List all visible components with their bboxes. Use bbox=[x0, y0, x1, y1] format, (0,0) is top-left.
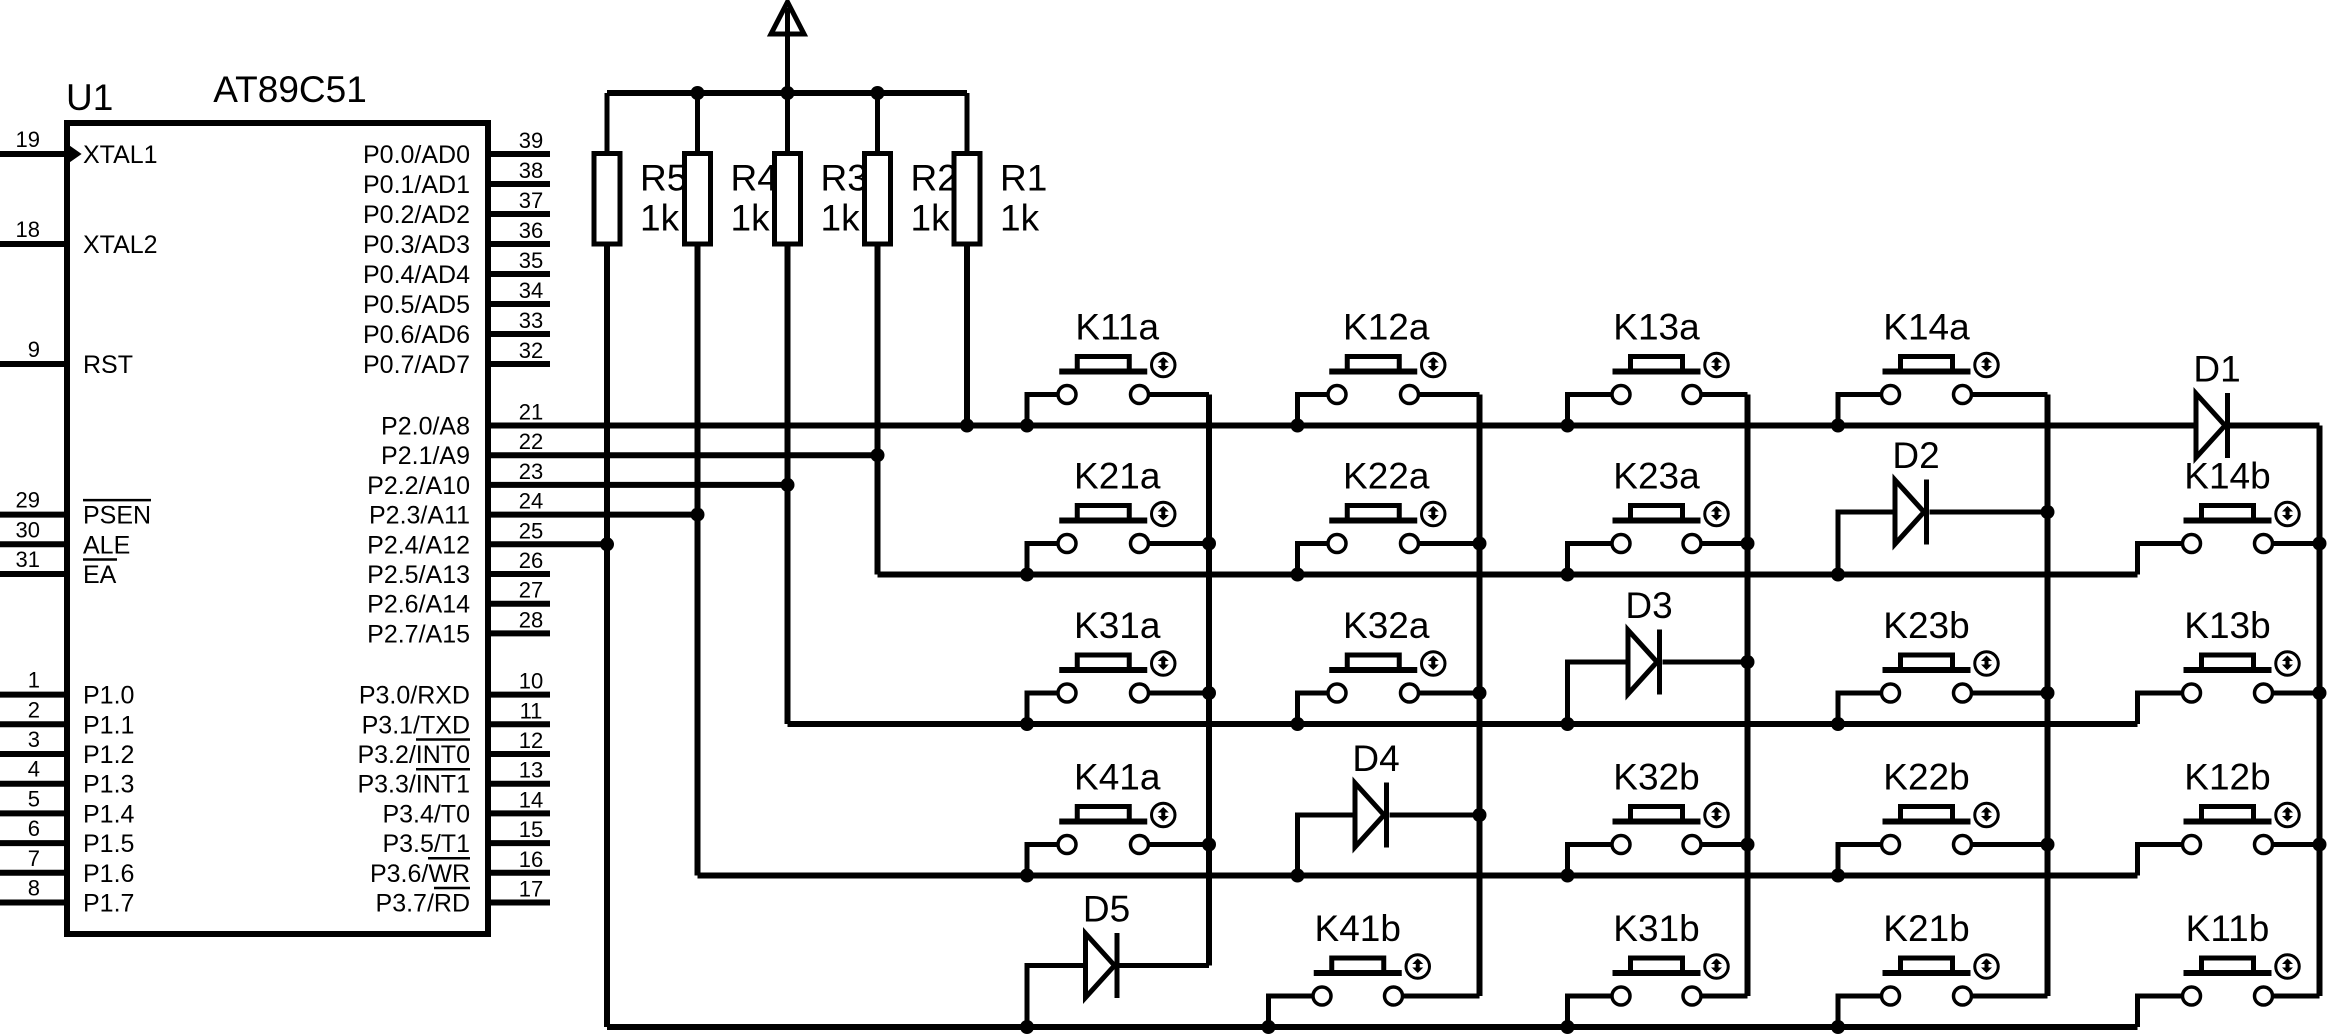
svg-text:P3.5/T1: P3.5/T1 bbox=[382, 830, 470, 858]
junction P2.2 line and R3 column bbox=[781, 478, 795, 492]
pin 30 (ALE) wire bbox=[0, 541, 67, 547]
switch K22b right contact bbox=[1954, 836, 1972, 854]
switch K22a base plate bbox=[1329, 518, 1417, 524]
svg-text:P2.4/A12: P2.4/A12 bbox=[367, 531, 470, 559]
diode D2 cathode bar bbox=[1924, 480, 1929, 545]
row 5 bus wire bbox=[607, 1024, 2138, 1030]
svg-text:D4: D4 bbox=[1352, 738, 1399, 779]
svg-text:K32b: K32b bbox=[1613, 757, 1699, 798]
svg-text:P2.1/A9: P2.1/A9 bbox=[381, 442, 470, 470]
junction right column / switch K14b bbox=[2313, 537, 2327, 551]
switch K23b left wire from row bus bbox=[1838, 693, 1880, 724]
switch K22b right wire to column bbox=[1973, 842, 2048, 847]
key column 4 vertical wire bbox=[2045, 395, 2051, 997]
svg-text:33: 33 bbox=[519, 308, 543, 333]
svg-text:K12b: K12b bbox=[2184, 757, 2270, 798]
switch K31a base plate bbox=[1059, 667, 1147, 673]
junction right column / switch K12b bbox=[2313, 838, 2327, 852]
svg-text:EA: EA bbox=[83, 561, 117, 589]
resistor R2 body bbox=[865, 154, 891, 245]
svg-text:P1.0: P1.0 bbox=[83, 682, 134, 710]
overline for EA bbox=[83, 558, 117, 561]
switch K32b actuator icon bbox=[1705, 803, 1729, 827]
pin 13 (P3.3/INT1) wire bbox=[488, 781, 550, 787]
svg-text:K23b: K23b bbox=[1883, 605, 1969, 646]
svg-text:P2.0/A8: P2.0/A8 bbox=[381, 413, 470, 441]
switch K22a button cap bbox=[1347, 506, 1399, 521]
switch K14a button cap bbox=[1901, 357, 1953, 372]
power supply arrow symbol bbox=[771, 2, 804, 34]
junction column vertical / switch K41a bbox=[1202, 838, 1216, 852]
svg-text:1k: 1k bbox=[640, 198, 680, 239]
switch K11b base plate bbox=[2184, 970, 2272, 976]
svg-text:P3.7/RD: P3.7/RD bbox=[376, 890, 470, 918]
pin 8 (P1.7) wire bbox=[0, 900, 67, 906]
junction row bus / switch K21a bbox=[1020, 568, 1034, 582]
svg-text:12: 12 bbox=[519, 728, 543, 753]
switch K32b button cap bbox=[1631, 807, 1683, 822]
switch K21a left contact bbox=[1058, 535, 1076, 553]
svg-text:P2.7/A15: P2.7/A15 bbox=[367, 620, 470, 648]
svg-text:P3.3/INT1: P3.3/INT1 bbox=[357, 771, 470, 799]
pin 1 (P1.0) wire bbox=[0, 692, 67, 698]
svg-text:P3.4/T0: P3.4/T0 bbox=[382, 800, 470, 828]
switch K21a right contact bbox=[1131, 535, 1149, 553]
diode D3 triangle bbox=[1628, 630, 1657, 694]
switch K23b right contact bbox=[1954, 684, 1972, 702]
switch K32a right contact bbox=[1401, 684, 1419, 702]
switch K21b right contact bbox=[1954, 987, 1972, 1005]
svg-text:R5: R5 bbox=[640, 158, 687, 199]
svg-text:R1: R1 bbox=[1000, 158, 1047, 199]
svg-text:3: 3 bbox=[28, 727, 40, 752]
svg-text:17: 17 bbox=[519, 877, 543, 902]
switch K41a right contact bbox=[1131, 836, 1149, 854]
pin 17 (P3.7/RD) wire bbox=[488, 900, 550, 906]
switch K12b button cap bbox=[2202, 807, 2254, 822]
switch K23a actuator icon bbox=[1705, 502, 1729, 526]
row 4 bus wire bbox=[698, 873, 2138, 879]
svg-text:U1: U1 bbox=[66, 77, 113, 118]
switch K14a left contact bbox=[1882, 386, 1900, 404]
switch K14a base plate bbox=[1883, 369, 1971, 375]
switch K14b left wire from row bus end bbox=[2138, 544, 2182, 575]
svg-text:RST: RST bbox=[83, 351, 133, 379]
svg-text:38: 38 bbox=[519, 158, 543, 183]
junction row bus / switch K21b bbox=[1831, 1020, 1845, 1034]
resistor R4 body bbox=[685, 154, 711, 245]
diode D3 cathode wire to column 3 bbox=[1663, 660, 1748, 665]
svg-text:31: 31 bbox=[16, 547, 40, 572]
switch K21b left wire from row bus bbox=[1838, 996, 1880, 1027]
svg-text:P0.3/AD3: P0.3/AD3 bbox=[363, 231, 470, 259]
junction column vertical / switch K23a bbox=[1741, 537, 1755, 551]
svg-text:K31a: K31a bbox=[1074, 605, 1161, 646]
junction row 5 bus / D5 anode bbox=[1020, 1020, 1034, 1034]
svg-text:P0.4/AD4: P0.4/AD4 bbox=[363, 261, 470, 289]
switch K41b base plate bbox=[1314, 970, 1402, 976]
switch K13b actuator icon bbox=[2276, 652, 2300, 676]
pin 3 (P1.2) wire bbox=[0, 751, 67, 757]
pin 11 (P3.1/TXD) wire bbox=[488, 721, 550, 727]
svg-text:P1.1: P1.1 bbox=[83, 711, 134, 739]
svg-text:14: 14 bbox=[519, 787, 543, 812]
junction on power rail at R2 bbox=[871, 86, 885, 100]
switch K23b base plate bbox=[1883, 667, 1971, 673]
switch K22b base plate bbox=[1883, 819, 1971, 825]
switch K31b actuator icon bbox=[1705, 955, 1729, 979]
switch K12b actuator icon bbox=[2276, 803, 2300, 827]
switch K21b button cap bbox=[1901, 958, 1953, 973]
switch K31a actuator icon bbox=[1152, 652, 1176, 676]
switch K13b button cap bbox=[2202, 655, 2254, 670]
switch K13b right wire to right column bbox=[2274, 691, 2320, 696]
switch K41b right wire to column bbox=[1404, 994, 1480, 999]
switch K32b right contact bbox=[1683, 836, 1701, 854]
svg-text:D5: D5 bbox=[1083, 889, 1130, 930]
switch K23b actuator icon bbox=[1975, 652, 1999, 676]
svg-text:11: 11 bbox=[520, 698, 543, 723]
junction row bus / switch K41b bbox=[1262, 1020, 1276, 1034]
svg-text:P2.5/A13: P2.5/A13 bbox=[367, 561, 470, 589]
switch K11a button cap bbox=[1077, 357, 1129, 372]
switch K41b left wire from row bus bbox=[1269, 996, 1312, 1027]
row 2 bus wire bbox=[878, 572, 2138, 578]
switch K31b base plate bbox=[1613, 970, 1701, 976]
switch K11b left contact bbox=[2183, 987, 2201, 1005]
switch K23a button cap bbox=[1631, 506, 1683, 521]
svg-text:AT89C51: AT89C51 bbox=[213, 69, 367, 110]
switch K11a actuator icon bbox=[1152, 353, 1176, 377]
XTAL1 input arrow bbox=[69, 147, 79, 161]
switch K13a base plate bbox=[1613, 369, 1701, 375]
switch K22a actuator icon bbox=[1422, 502, 1446, 526]
svg-text:XTAL2: XTAL2 bbox=[83, 231, 158, 259]
switch K22a right wire to column bbox=[1420, 541, 1480, 546]
pin 34 (P0.5/AD5) wire bbox=[488, 301, 550, 307]
switch K23b right wire to column bbox=[1973, 691, 2048, 696]
svg-text:D1: D1 bbox=[2193, 349, 2240, 390]
svg-text:1k: 1k bbox=[821, 198, 861, 239]
pin 19 (XTAL1) wire bbox=[0, 151, 67, 157]
pin 14 (P3.4/T0) wire bbox=[488, 810, 550, 816]
svg-text:7: 7 bbox=[28, 846, 40, 871]
svg-text:30: 30 bbox=[16, 517, 40, 542]
switch K12b right wire to right column bbox=[2274, 842, 2320, 847]
switch K14b actuator icon bbox=[2276, 502, 2300, 526]
svg-text:P2.2/A10: P2.2/A10 bbox=[367, 472, 470, 500]
switch K41a left contact bbox=[1058, 836, 1076, 854]
junction P2.4 line and R5 column bbox=[600, 537, 614, 551]
switch K21b left contact bbox=[1882, 987, 1900, 1005]
svg-text:D3: D3 bbox=[1625, 585, 1672, 626]
svg-text:K13b: K13b bbox=[2184, 605, 2270, 646]
pin 9 (RST) wire bbox=[0, 361, 67, 367]
switch K12a right wire to column bbox=[1420, 392, 1480, 397]
switch K22b actuator icon bbox=[1975, 803, 1999, 827]
svg-text:P0.1/AD1: P0.1/AD1 bbox=[363, 171, 470, 199]
pin 10 (P3.0/RXD) wire bbox=[488, 692, 550, 698]
resistor R1 body bbox=[954, 154, 980, 245]
svg-text:2: 2 bbox=[28, 697, 40, 722]
wire below resistor R5 bbox=[604, 244, 610, 1027]
wire from power rail to resistor R3 bbox=[785, 93, 790, 154]
svg-text:K21a: K21a bbox=[1074, 456, 1161, 497]
svg-text:P1.2: P1.2 bbox=[83, 741, 134, 769]
svg-text:16: 16 bbox=[519, 847, 543, 872]
junction row bus / switch K32a bbox=[1291, 717, 1305, 731]
row 3 bus wire bbox=[788, 721, 2138, 727]
switch K31b right wire to column bbox=[1703, 994, 1748, 999]
switch K41b actuator icon bbox=[1406, 955, 1430, 979]
switch K32a right wire to column bbox=[1420, 691, 1480, 696]
switch K32a button cap bbox=[1347, 655, 1399, 670]
diode D3 anode wire from row 3 bus bbox=[1568, 662, 1629, 724]
switch K11a right wire to column bbox=[1150, 392, 1209, 397]
svg-text:K11b: K11b bbox=[2186, 908, 2270, 949]
pin 23 (P2.2/A10) wire bbox=[488, 482, 788, 488]
switch K14a right contact bbox=[1954, 386, 1972, 404]
pin 37 (P0.2/AD2) wire bbox=[488, 211, 550, 217]
pin 2 (P1.1) wire bbox=[0, 721, 67, 727]
switch K41a actuator icon bbox=[1152, 803, 1176, 827]
switch K41a left wire from row bus bbox=[1027, 845, 1057, 876]
svg-text:4: 4 bbox=[28, 757, 40, 782]
switch K14b left contact bbox=[2183, 535, 2201, 553]
svg-text:19: 19 bbox=[16, 127, 40, 152]
switch K12a left wire from row bus bbox=[1298, 395, 1327, 426]
svg-text:35: 35 bbox=[519, 248, 543, 273]
junction row 3 bus / D3 anode bbox=[1561, 717, 1575, 731]
switch K12a base plate bbox=[1329, 369, 1417, 375]
junction row bus / switch K22b bbox=[1831, 869, 1845, 883]
switch K14b right wire to right column bbox=[2274, 541, 2320, 546]
switch K13b left contact bbox=[2183, 684, 2201, 702]
switch K31b button cap bbox=[1631, 958, 1683, 973]
svg-text:37: 37 bbox=[519, 188, 543, 213]
switch K11a left wire from row bus bbox=[1027, 395, 1057, 426]
switch K41b button cap bbox=[1332, 958, 1384, 973]
pin 31 (EA) wire bbox=[0, 571, 67, 577]
junction P2.3 line and R4 column bbox=[691, 508, 705, 522]
diode D5 triangle bbox=[1086, 934, 1115, 998]
switch K14a right wire to column bbox=[1973, 392, 2048, 397]
svg-text:13: 13 bbox=[519, 758, 543, 783]
svg-text:15: 15 bbox=[519, 817, 543, 842]
diode D4 triangle bbox=[1355, 783, 1384, 847]
overline for PSEN bbox=[83, 499, 151, 502]
key column 5 vertical wire (right edge) bbox=[2317, 426, 2323, 997]
pin 5 (P1.4) wire bbox=[0, 810, 67, 816]
overline for INT0 bbox=[416, 738, 470, 741]
junction row bus / switch K12a bbox=[1291, 419, 1305, 433]
junction column vertical / switch K22b bbox=[2041, 838, 2055, 852]
svg-text:P3.2/INT0: P3.2/INT0 bbox=[357, 741, 470, 769]
pin 35 (P0.4/AD4) wire bbox=[488, 271, 550, 277]
switch K21a right wire to column bbox=[1150, 541, 1209, 546]
pin 6 (P1.5) wire bbox=[0, 840, 67, 846]
junction row bus / switch K31b bbox=[1561, 1020, 1575, 1034]
junction row bus / switch K22a bbox=[1291, 568, 1305, 582]
svg-text:P0.6/AD6: P0.6/AD6 bbox=[363, 321, 470, 349]
diode D2 cathode wire to column 4 bbox=[1930, 510, 2048, 515]
junction on power rail at R4 bbox=[691, 86, 705, 100]
row 1 bus wire D1 cathode to right column bbox=[2230, 423, 2320, 429]
switch K13a left wire from row bus bbox=[1568, 395, 1611, 426]
switch K14b button cap bbox=[2202, 506, 2254, 521]
svg-text:29: 29 bbox=[16, 488, 40, 513]
junction row bus / switch K14a bbox=[1831, 419, 1845, 433]
switch K32a base plate bbox=[1329, 667, 1417, 673]
diode D4 cathode bar bbox=[1384, 783, 1389, 848]
switch K13b right contact bbox=[2255, 684, 2273, 702]
svg-text:18: 18 bbox=[16, 217, 40, 242]
svg-text:R2: R2 bbox=[911, 158, 958, 199]
switch K13a right contact bbox=[1683, 386, 1701, 404]
pin 38 (P0.1/AD1) wire bbox=[488, 181, 550, 187]
switch K31a left wire from row bus bbox=[1027, 693, 1057, 724]
overline for RD bbox=[434, 887, 470, 890]
svg-text:P1.3: P1.3 bbox=[83, 771, 134, 799]
junction column 4 / D2 cathode bbox=[2041, 505, 2055, 519]
switch K22b left wire from row bus bbox=[1838, 845, 1880, 876]
switch K13a button cap bbox=[1631, 357, 1683, 372]
svg-text:P1.4: P1.4 bbox=[83, 800, 135, 828]
pin 7 (P1.6) wire bbox=[0, 870, 67, 876]
power rail wire bbox=[607, 90, 967, 96]
switch K23b button cap bbox=[1901, 655, 1953, 670]
pin 16 (P3.6/WR) wire bbox=[488, 870, 550, 876]
pin 4 (P1.3) wire bbox=[0, 781, 67, 787]
switch K31a left contact bbox=[1058, 684, 1076, 702]
svg-text:R3: R3 bbox=[821, 158, 868, 199]
pin 33 (P0.6/AD6) wire bbox=[488, 331, 550, 337]
svg-text:6: 6 bbox=[28, 816, 40, 841]
svg-text:K22a: K22a bbox=[1343, 456, 1430, 497]
svg-text:5: 5 bbox=[28, 786, 40, 811]
svg-text:XTAL1: XTAL1 bbox=[83, 141, 158, 169]
wire from power rail to resistor R1 bbox=[965, 93, 970, 154]
pin 27 (P2.6/A14) wire bbox=[488, 601, 550, 607]
switch K41b right contact bbox=[1385, 987, 1403, 1005]
switch K23a base plate bbox=[1613, 518, 1701, 524]
switch K11a right contact bbox=[1131, 386, 1149, 404]
junction column vertical / switch K31a bbox=[1202, 686, 1216, 700]
junction column 3 / D3 cathode bbox=[1741, 655, 1755, 669]
switch K23a left contact bbox=[1612, 535, 1630, 553]
svg-text:K23a: K23a bbox=[1613, 456, 1700, 497]
svg-text:P3.0/RXD: P3.0/RXD bbox=[359, 682, 470, 710]
switch K32a actuator icon bbox=[1422, 652, 1446, 676]
junction column 2 / D4 cathode bbox=[1473, 808, 1487, 822]
svg-text:25: 25 bbox=[519, 518, 543, 543]
pin 18 (XTAL2) wire bbox=[0, 241, 67, 247]
svg-text:26: 26 bbox=[519, 548, 543, 573]
diode D4 cathode wire to column 2 bbox=[1390, 813, 1480, 818]
pin 32 (P0.7/AD7) wire bbox=[488, 361, 550, 367]
wire from power rail to resistor R5 bbox=[605, 93, 610, 154]
svg-text:9: 9 bbox=[28, 337, 40, 362]
switch K31b left contact bbox=[1612, 987, 1630, 1005]
switch K11b actuator icon bbox=[2276, 955, 2300, 979]
switch K13b base plate bbox=[2184, 667, 2272, 673]
switch K31a right contact bbox=[1131, 684, 1149, 702]
switch K12a actuator icon bbox=[1422, 353, 1446, 377]
diode D1 triangle bbox=[2196, 394, 2225, 458]
pin 15 (P3.5/T1) wire bbox=[488, 840, 550, 846]
switch K22b button cap bbox=[1901, 807, 1953, 822]
diode D4 anode wire from row 4 bus bbox=[1298, 815, 1356, 876]
svg-text:10: 10 bbox=[519, 669, 543, 694]
pin 25 (P2.4/A12) wire bbox=[488, 541, 607, 547]
switch K32a left contact bbox=[1328, 684, 1346, 702]
svg-text:K22b: K22b bbox=[1883, 757, 1969, 798]
diode D2 anode wire from row 2 bus bbox=[1838, 512, 1895, 575]
svg-text:P1.6: P1.6 bbox=[83, 860, 134, 888]
junction row bus / switch K31a bbox=[1020, 717, 1034, 731]
net P2.0/A8 row 1 bus wire (to D1 anode) bbox=[488, 423, 2196, 429]
overline for INT1 bbox=[416, 768, 470, 771]
junction row bus / switch K41a bbox=[1020, 869, 1034, 883]
junction row 2 bus / D2 anode bbox=[1831, 568, 1845, 582]
svg-text:K41b: K41b bbox=[1315, 908, 1401, 949]
svg-text:K21b: K21b bbox=[1883, 908, 1969, 949]
svg-text:P3.6/WR: P3.6/WR bbox=[370, 860, 470, 888]
switch K12a right contact bbox=[1401, 386, 1419, 404]
switch K11b right contact bbox=[2255, 987, 2273, 1005]
switch K41a button cap bbox=[1077, 807, 1129, 822]
junction column vertical / switch K32b bbox=[1741, 838, 1755, 852]
svg-text:K32a: K32a bbox=[1343, 605, 1430, 646]
switch K23a left wire from row bus bbox=[1568, 544, 1611, 575]
pin 36 (P0.3/AD3) wire bbox=[488, 241, 550, 247]
resistor R3 body bbox=[775, 154, 801, 245]
junction row bus / switch K13a bbox=[1561, 419, 1575, 433]
switch K13a right wire to column bbox=[1703, 392, 1748, 397]
switch K41a base plate bbox=[1059, 819, 1147, 825]
switch K21b base plate bbox=[1883, 970, 1971, 976]
junction column vertical / switch K32a bbox=[1473, 686, 1487, 700]
svg-text:R4: R4 bbox=[731, 158, 778, 199]
switch K21a button cap bbox=[1077, 506, 1129, 521]
switch K12b base plate bbox=[2184, 819, 2272, 825]
junction row 4 bus / D4 anode bbox=[1291, 869, 1305, 883]
svg-text:P0.5/AD5: P0.5/AD5 bbox=[363, 291, 470, 319]
switch K32b base plate bbox=[1613, 819, 1701, 825]
svg-text:P2.6/A14: P2.6/A14 bbox=[367, 591, 470, 619]
key column 2 vertical wire bbox=[1477, 395, 1483, 997]
svg-text:34: 34 bbox=[519, 278, 543, 303]
svg-text:P0.0/AD0: P0.0/AD0 bbox=[363, 141, 470, 169]
junction on power rail at R3 bbox=[781, 86, 795, 100]
overline for WR bbox=[428, 857, 470, 860]
svg-text:D2: D2 bbox=[1892, 435, 1939, 476]
switch K13b left wire from row bus end bbox=[2138, 693, 2182, 724]
svg-text:ALE: ALE bbox=[83, 531, 130, 559]
key column 1 vertical wire bbox=[1206, 395, 1212, 966]
svg-text:1: 1 bbox=[28, 668, 40, 693]
svg-text:P0.7/AD7: P0.7/AD7 bbox=[363, 351, 470, 379]
svg-text:24: 24 bbox=[519, 489, 543, 514]
switch K13a left contact bbox=[1612, 386, 1630, 404]
svg-text:K31b: K31b bbox=[1613, 908, 1699, 949]
svg-text:K41a: K41a bbox=[1074, 757, 1161, 798]
junction right column / switch K13b bbox=[2313, 686, 2327, 700]
switch K11b button cap bbox=[2202, 958, 2254, 973]
svg-text:K11a: K11a bbox=[1075, 307, 1159, 348]
pin 24 (P2.3/A11) wire bbox=[488, 512, 698, 518]
pin 29 (PSEN) wire bbox=[0, 512, 67, 518]
